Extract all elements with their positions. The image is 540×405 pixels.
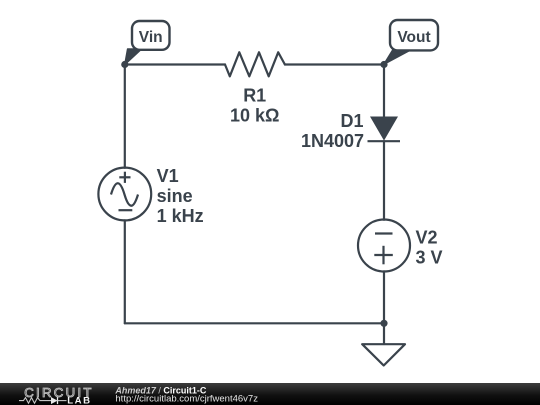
- svg-text:http://circuitlab.com/cjrfwent: http://circuitlab.com/cjrfwent46v7z: [115, 394, 258, 405]
- footer bar: [0, 383, 540, 405]
- svg-text:Vout: Vout: [397, 29, 430, 46]
- node flag Vout: [384, 20, 438, 64]
- wire left rail upper (Vin node to V1): [124, 65, 126, 168]
- node Vin junction dot: [121, 61, 128, 68]
- wire right rail upper (Vout node to D1): [383, 65, 385, 118]
- svg-text:R1: R1: [243, 85, 266, 105]
- node bottom junction dot: [380, 320, 387, 327]
- svg-text:1 kHz: 1 kHz: [157, 206, 204, 226]
- wire D1 to V2: [383, 141, 385, 220]
- svg-text:V2: V2: [416, 228, 438, 248]
- svg-text:Vin: Vin: [139, 29, 163, 46]
- resistor R1: [225, 52, 285, 76]
- wire top rail right (R1 to Vout node): [285, 63, 384, 65]
- voltage source V1 (sine): [98, 168, 151, 221]
- svg-text:3 V: 3 V: [416, 248, 443, 268]
- voltage source V2 (battery): [358, 220, 410, 272]
- logo CircuitLab: [19, 385, 94, 405]
- svg-text:V1: V1: [157, 166, 179, 186]
- svg-text:sine: sine: [157, 186, 193, 206]
- svg-text:1N4007: 1N4007: [301, 131, 364, 151]
- wire top rail left (Vin node to R1): [125, 63, 225, 65]
- wire ground stem: [383, 323, 385, 344]
- wire V2 to bottom node: [383, 271, 385, 323]
- svg-text:D1: D1: [340, 111, 363, 131]
- svg-text:10 kΩ: 10 kΩ: [230, 105, 279, 125]
- node flag Vin: [125, 21, 170, 65]
- diode D1: [368, 117, 401, 142]
- node Vout junction dot: [380, 61, 387, 68]
- wire bottom rail: [125, 322, 384, 324]
- svg-text:LAB: LAB: [67, 395, 91, 405]
- wire left rail lower (V1 to bottom): [124, 220, 126, 323]
- ground: [362, 344, 405, 365]
